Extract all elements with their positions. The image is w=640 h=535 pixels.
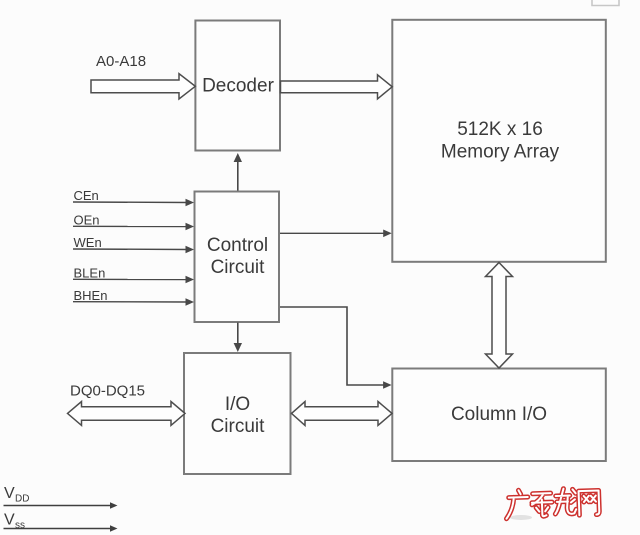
block Column I/O — [392, 369, 606, 462]
glyph 网 — [579, 490, 600, 515]
block I/O Circuit — [184, 353, 291, 474]
bus arrow DQ0-DQ15 (double) — [68, 402, 186, 426]
wire BHEn — [73, 301, 188, 303]
svg-text:Circuit: Circuit — [211, 257, 266, 278]
glyph 龙 — [554, 488, 576, 514]
svg-text:I/O: I/O — [225, 394, 250, 415]
svg-text:CEn: CEn — [74, 188, 99, 203]
wire WEn — [73, 248, 188, 251]
wire Control to Memory Array — [280, 232, 386, 234]
wire Control to Decoder (up arrow) — [237, 157, 239, 191]
wire Control to I/O Circuit (down arrow) — [237, 323, 239, 348]
svg-text:Control: Control — [207, 235, 268, 256]
power VDD — [4, 485, 118, 509]
faint cropped box top-right corner — [592, 0, 619, 6]
wire Control to Column I/O (bent) — [280, 307, 386, 385]
watermark shadow — [510, 515, 532, 520]
bus arrow Memory Array to Column I/O (vertical double) — [486, 263, 513, 369]
svg-text:Circuit: Circuit — [211, 416, 266, 437]
block Decoder — [195, 21, 280, 151]
svg-text:DD: DD — [15, 494, 29, 505]
glyph 东 — [532, 493, 553, 516]
svg-text:A0-A18: A0-A18 — [96, 53, 146, 70]
svg-text:DQ0-DQ15: DQ0-DQ15 — [70, 383, 145, 400]
svg-text:Memory Array: Memory Array — [441, 142, 560, 163]
svg-text:Decoder: Decoder — [202, 76, 274, 97]
bus arrow Decoder to Memory Array — [281, 75, 393, 99]
svg-text:WEn: WEn — [74, 235, 102, 250]
svg-text:Column I/O: Column I/O — [451, 404, 547, 425]
svg-text:ss: ss — [15, 520, 25, 531]
wire CEn — [73, 201, 188, 204]
wire OEn — [73, 225, 188, 227]
block Control Circuit — [195, 192, 280, 323]
power VSS — [4, 512, 118, 532]
svg-text:V: V — [4, 485, 15, 502]
svg-text:BLEn: BLEn — [74, 266, 106, 281]
bus arrow A0-A18 into Decoder — [91, 74, 195, 99]
svg-text:512K x 16: 512K x 16 — [457, 119, 543, 140]
svg-text:OEn: OEn — [74, 213, 100, 228]
bus arrow I/O Circuit to Column I/O (double) — [292, 402, 393, 426]
block 512K x 16 Memory Array — [392, 20, 606, 262]
svg-text:BHEn: BHEn — [74, 288, 108, 303]
glyph 广 — [506, 490, 529, 519]
wire BLEn — [73, 278, 188, 280]
watermark logo 广东龙网 (red outlined glyphs) — [506, 487, 600, 518]
svg-text:V: V — [4, 512, 15, 529]
